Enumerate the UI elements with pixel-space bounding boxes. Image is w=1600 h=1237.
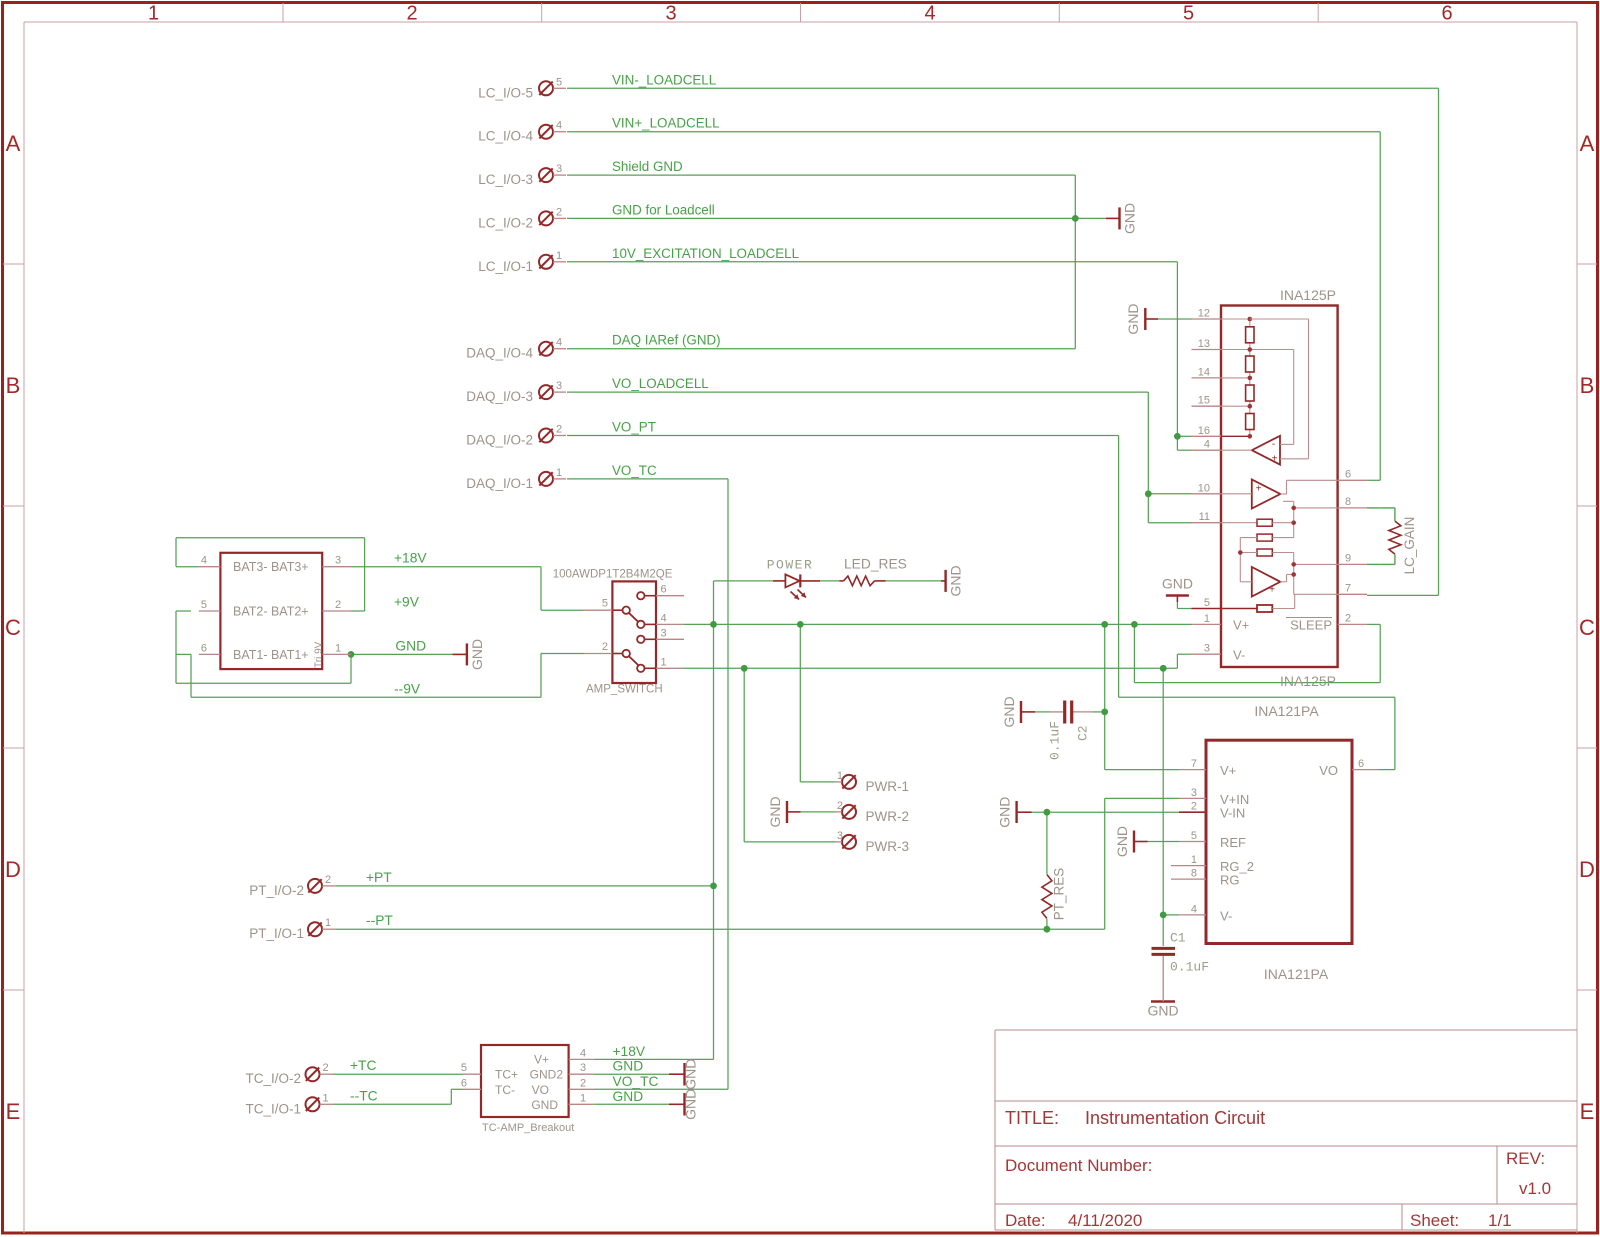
svg-text:Date:: Date: bbox=[1005, 1211, 1046, 1230]
svg-text:PWR-2: PWR-2 bbox=[866, 809, 910, 824]
svg-text:6: 6 bbox=[201, 642, 207, 654]
svg-text:0.1uF: 0.1uF bbox=[1170, 960, 1209, 975]
svg-text:B: B bbox=[1580, 373, 1595, 398]
svg-text:DAQ_I/O-2: DAQ_I/O-2 bbox=[466, 433, 533, 448]
svg-text:12: 12 bbox=[1198, 308, 1210, 320]
svg-text:TITLE:: TITLE: bbox=[1005, 1108, 1059, 1128]
svg-text:INA121PA: INA121PA bbox=[1264, 966, 1329, 982]
svg-text:4/11/2020: 4/11/2020 bbox=[1068, 1211, 1142, 1230]
svg-text:2: 2 bbox=[325, 874, 331, 886]
svg-text:0.1uF: 0.1uF bbox=[1048, 721, 1063, 760]
svg-text:15: 15 bbox=[1198, 395, 1210, 407]
svg-text:+: + bbox=[1272, 454, 1278, 465]
svg-text:9: 9 bbox=[1345, 552, 1351, 564]
svg-text:GND: GND bbox=[1162, 576, 1193, 592]
svg-text:4: 4 bbox=[1204, 439, 1210, 451]
svg-text:GND: GND bbox=[613, 1059, 644, 1074]
svg-text:POWER: POWER bbox=[767, 558, 814, 573]
svg-text:TC_I/O-1: TC_I/O-1 bbox=[245, 1101, 301, 1116]
svg-text:1: 1 bbox=[323, 1092, 329, 1104]
svg-text:3: 3 bbox=[1204, 643, 1210, 655]
svg-text:PWR-3: PWR-3 bbox=[866, 839, 910, 854]
svg-text:7: 7 bbox=[1191, 758, 1197, 770]
svg-text:V-: V- bbox=[1220, 908, 1232, 923]
svg-text:LC_I/O-5: LC_I/O-5 bbox=[478, 85, 533, 100]
svg-text:V-: V- bbox=[1233, 648, 1245, 663]
svg-text:TC_I/O-2: TC_I/O-2 bbox=[245, 1071, 301, 1086]
svg-text:1: 1 bbox=[661, 656, 667, 668]
svg-text:VO_LOADCELL: VO_LOADCELL bbox=[612, 376, 709, 391]
svg-text:REF: REF bbox=[1220, 835, 1246, 850]
svg-text:4: 4 bbox=[201, 555, 207, 567]
svg-text:+18V: +18V bbox=[394, 551, 427, 566]
svg-text:+: + bbox=[1269, 585, 1275, 596]
svg-text:Sheet:: Sheet: bbox=[1410, 1211, 1459, 1230]
svg-text:5: 5 bbox=[602, 598, 608, 610]
svg-text:GND: GND bbox=[1125, 303, 1141, 334]
svg-text:14: 14 bbox=[1198, 366, 1210, 378]
svg-text:REV:: REV: bbox=[1506, 1149, 1545, 1168]
svg-text:V+: V+ bbox=[1233, 618, 1249, 633]
svg-text:11: 11 bbox=[1199, 511, 1210, 523]
svg-text:DAQ_I/O-4: DAQ_I/O-4 bbox=[466, 346, 533, 361]
svg-text:GND: GND bbox=[1001, 696, 1017, 727]
svg-text:5: 5 bbox=[201, 599, 207, 611]
svg-text:VO_TC: VO_TC bbox=[612, 463, 657, 478]
svg-text:LC_I/O-3: LC_I/O-3 bbox=[478, 172, 533, 187]
svg-text:1: 1 bbox=[148, 3, 159, 25]
svg-text:-: - bbox=[1272, 439, 1275, 450]
svg-text:C: C bbox=[5, 615, 21, 640]
svg-text:LC_GAIN: LC_GAIN bbox=[1402, 517, 1417, 575]
svg-text:5: 5 bbox=[1191, 830, 1197, 842]
svg-text:TC+: TC+ bbox=[495, 1068, 518, 1082]
svg-text:10V_EXCITATION_LOADCELL: 10V_EXCITATION_LOADCELL bbox=[612, 246, 799, 261]
svg-text:6: 6 bbox=[661, 584, 667, 596]
svg-text:E: E bbox=[6, 1099, 21, 1124]
svg-text:DAQ_I/O-1: DAQ_I/O-1 bbox=[466, 476, 533, 491]
svg-text:GND: GND bbox=[1147, 1003, 1178, 1019]
svg-text:DAQ_I/O-3: DAQ_I/O-3 bbox=[466, 389, 533, 404]
svg-text:6: 6 bbox=[1345, 468, 1351, 480]
svg-text:1: 1 bbox=[1204, 613, 1210, 625]
svg-text:BAT1- BAT1+: BAT1- BAT1+ bbox=[233, 648, 309, 662]
svg-text:5: 5 bbox=[1204, 597, 1210, 609]
svg-text:5: 5 bbox=[556, 76, 562, 88]
svg-text:3: 3 bbox=[665, 3, 676, 25]
svg-text:INA125P: INA125P bbox=[1280, 673, 1336, 689]
svg-text:GND: GND bbox=[683, 1059, 699, 1090]
svg-text:V+: V+ bbox=[1220, 763, 1236, 778]
svg-text:VIN+_LOADCELL: VIN+_LOADCELL bbox=[612, 116, 720, 131]
svg-text:6: 6 bbox=[1441, 3, 1452, 25]
svg-text:--PT: --PT bbox=[366, 913, 393, 928]
svg-text:3: 3 bbox=[335, 555, 341, 567]
svg-text:C1: C1 bbox=[1170, 931, 1186, 946]
svg-text:4: 4 bbox=[556, 120, 562, 132]
svg-text:10: 10 bbox=[1198, 482, 1210, 494]
svg-text:PT_I/O-2: PT_I/O-2 bbox=[249, 883, 304, 898]
svg-text:+PT: +PT bbox=[366, 870, 392, 885]
svg-text:GND: GND bbox=[683, 1089, 699, 1120]
svg-text:VIN-_LOADCELL: VIN-_LOADCELL bbox=[612, 72, 716, 87]
svg-text:LED_RES: LED_RES bbox=[844, 557, 907, 572]
svg-text:TC-: TC- bbox=[495, 1083, 515, 1097]
svg-text:GND: GND bbox=[469, 639, 485, 670]
svg-text:DAQ IARef (GND): DAQ IARef (GND) bbox=[612, 333, 721, 348]
svg-text:RG: RG bbox=[1220, 873, 1240, 888]
svg-text:4: 4 bbox=[580, 1047, 586, 1059]
svg-text:4: 4 bbox=[556, 337, 562, 349]
svg-text:4: 4 bbox=[661, 612, 667, 624]
svg-text:2: 2 bbox=[1345, 612, 1351, 624]
svg-text:BAT2- BAT2+: BAT2- BAT2+ bbox=[233, 604, 309, 618]
svg-text:Instrumentation Circuit: Instrumentation Circuit bbox=[1085, 1108, 1265, 1128]
svg-text:GND: GND bbox=[1114, 826, 1130, 857]
svg-text:1: 1 bbox=[335, 642, 341, 654]
svg-text:1: 1 bbox=[580, 1092, 586, 1104]
svg-text:3: 3 bbox=[837, 830, 843, 842]
svg-text:1/1: 1/1 bbox=[1488, 1211, 1512, 1230]
svg-text:6: 6 bbox=[1358, 758, 1364, 770]
svg-text:+TC: +TC bbox=[350, 1058, 376, 1073]
svg-text:+18V: +18V bbox=[613, 1044, 646, 1059]
svg-text:2: 2 bbox=[323, 1062, 329, 1074]
svg-text:PT_RES: PT_RES bbox=[1052, 868, 1067, 921]
svg-text:GND: GND bbox=[767, 796, 783, 827]
svg-text:1: 1 bbox=[556, 250, 562, 262]
svg-text:1: 1 bbox=[556, 467, 562, 479]
svg-text:A: A bbox=[1580, 131, 1595, 156]
svg-text:5: 5 bbox=[1183, 3, 1194, 25]
svg-text:2: 2 bbox=[580, 1077, 586, 1089]
svg-text:3: 3 bbox=[661, 627, 667, 639]
svg-text:PT_I/O-1: PT_I/O-1 bbox=[249, 926, 304, 941]
svg-text:GND: GND bbox=[997, 797, 1013, 828]
svg-text:Shield GND: Shield GND bbox=[612, 159, 683, 174]
svg-text:1: 1 bbox=[837, 770, 843, 782]
svg-text:2: 2 bbox=[335, 599, 341, 611]
svg-text:GND: GND bbox=[395, 638, 426, 653]
svg-text:VO_PT: VO_PT bbox=[612, 420, 656, 435]
svg-text:3: 3 bbox=[556, 163, 562, 175]
svg-text:1: 1 bbox=[1191, 854, 1197, 866]
svg-text:C: C bbox=[1579, 615, 1595, 640]
svg-text:2: 2 bbox=[556, 424, 562, 436]
svg-text:LC_I/O-1: LC_I/O-1 bbox=[478, 259, 533, 274]
svg-text:3: 3 bbox=[1191, 787, 1197, 799]
svg-text:16: 16 bbox=[1198, 425, 1210, 437]
svg-text:2: 2 bbox=[556, 206, 562, 218]
svg-text:2: 2 bbox=[837, 800, 843, 812]
svg-text:PWR-1: PWR-1 bbox=[866, 779, 910, 794]
svg-text:V+: V+ bbox=[534, 1053, 549, 1067]
svg-text:LC_I/O-2: LC_I/O-2 bbox=[478, 215, 533, 230]
svg-text:LC_I/O-4: LC_I/O-4 bbox=[478, 129, 533, 144]
svg-text:2: 2 bbox=[602, 641, 608, 653]
svg-text:3: 3 bbox=[580, 1062, 586, 1074]
svg-text:A: A bbox=[6, 131, 21, 156]
svg-text:1: 1 bbox=[325, 917, 331, 929]
svg-text:7: 7 bbox=[1345, 582, 1351, 594]
svg-text:C2: C2 bbox=[1076, 725, 1091, 741]
svg-text:V-IN: V-IN bbox=[1220, 806, 1245, 821]
svg-text:4: 4 bbox=[924, 3, 935, 25]
svg-text:VO: VO bbox=[532, 1083, 549, 1097]
svg-text:2: 2 bbox=[1191, 801, 1197, 813]
svg-text:+: + bbox=[1256, 484, 1262, 495]
svg-text:INA125P: INA125P bbox=[1280, 287, 1336, 303]
svg-text:13: 13 bbox=[1198, 338, 1210, 350]
svg-text:GND: GND bbox=[613, 1089, 644, 1104]
svg-text:V+IN: V+IN bbox=[1220, 792, 1249, 807]
svg-text:100AWDP1T2B4M2QE: 100AWDP1T2B4M2QE bbox=[553, 569, 673, 581]
svg-text:8: 8 bbox=[1345, 496, 1351, 508]
svg-text:--9V: --9V bbox=[394, 681, 421, 696]
svg-text:3: 3 bbox=[556, 380, 562, 392]
svg-text:BAT3- BAT3+: BAT3- BAT3+ bbox=[233, 560, 309, 574]
svg-text:GND for Loadcell: GND for Loadcell bbox=[612, 202, 715, 217]
svg-text:Document Number:: Document Number: bbox=[1005, 1156, 1152, 1175]
svg-text:D: D bbox=[1579, 857, 1595, 882]
svg-text:B: B bbox=[6, 373, 21, 398]
svg-text:GND: GND bbox=[948, 565, 964, 596]
svg-text:GND2: GND2 bbox=[530, 1068, 564, 1082]
svg-text:+9V: +9V bbox=[394, 595, 420, 610]
svg-text:VO: VO bbox=[1319, 763, 1338, 778]
svg-text:TC-AMP_Breakout: TC-AMP_Breakout bbox=[482, 1122, 574, 1134]
svg-text:AMP_SWITCH: AMP_SWITCH bbox=[586, 684, 663, 696]
svg-text:D: D bbox=[5, 857, 21, 882]
svg-text:v1.0: v1.0 bbox=[1519, 1179, 1551, 1198]
svg-text:GND: GND bbox=[1122, 203, 1138, 234]
svg-text:SLEEP: SLEEP bbox=[1290, 617, 1332, 632]
svg-text:INA121PA: INA121PA bbox=[1254, 703, 1319, 719]
svg-text:E: E bbox=[1580, 1099, 1595, 1124]
svg-text:Tri 9V: Tri 9V bbox=[314, 641, 325, 668]
svg-text:5: 5 bbox=[461, 1062, 467, 1074]
svg-text:8: 8 bbox=[1191, 868, 1197, 880]
svg-text:VO_TC: VO_TC bbox=[613, 1074, 659, 1089]
svg-text:--TC: --TC bbox=[350, 1088, 378, 1103]
svg-text:GND: GND bbox=[531, 1098, 558, 1112]
svg-text:2: 2 bbox=[406, 3, 417, 25]
svg-text:4: 4 bbox=[1191, 903, 1197, 915]
svg-text:6: 6 bbox=[461, 1077, 467, 1089]
